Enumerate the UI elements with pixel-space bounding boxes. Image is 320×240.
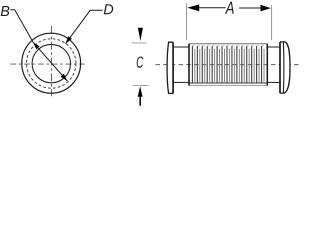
rib band bottom outline: [189, 85, 267, 87]
arrowhead B lower-right: [61, 74, 68, 81]
dimension C extension line top: [132, 42, 147, 44]
ribs second lines: [195, 49, 264, 83]
rib top caps: [192, 45, 264, 47]
dimension A line left segment: [199, 7, 226, 9]
right end cap: [280, 42, 290, 93]
right collar bottom line: [267, 81, 280, 83]
label B: [1, 6, 10, 16]
arrowhead A left: [187, 4, 199, 11]
rib root bottom line: [189, 82, 267, 84]
front view: vertical centerline: [51, 26, 53, 96]
dimension B diameter line: [33, 42, 67, 81]
dimension A extension line left: [186, 3, 188, 40]
flange (left head): [167, 42, 173, 93]
label A: [225, 2, 234, 14]
side view: axis centerline: [156, 64, 299, 66]
C bottom arrow stem: [139, 96, 141, 106]
right collar top line: [267, 46, 280, 48]
right cap inner line: [282, 42, 284, 93]
label C: [137, 56, 144, 67]
front view: horizontal centerline: [10, 63, 84, 65]
dimension A line right segment: [239, 7, 261, 9]
leader B: [10, 10, 33, 43]
C top arrow: [138, 28, 143, 41]
left collar top line: [173, 46, 189, 48]
rib band right edge: [266, 44, 268, 86]
flange face line: [172, 42, 174, 93]
leader D: [66, 10, 103, 43]
right cap face line: [279, 42, 281, 93]
arrowhead A right: [261, 5, 271, 12]
inner circle (bore): [32, 44, 70, 82]
left collar bottom line: [173, 81, 189, 83]
arrowhead B upper-left: [33, 42, 40, 49]
C bottom arrow: [138, 86, 143, 97]
dashed circle (hidden thread circle): [27, 39, 76, 88]
ribs major lines: [192, 46, 261, 83]
arrowhead D: [66, 36, 72, 43]
dimension A extension line right: [271, 5, 273, 40]
dimension C extension line bottom: [132, 84, 148, 86]
rib band left edge: [188, 44, 190, 86]
rib band top outline: [189, 43, 267, 45]
label D: [104, 4, 113, 14]
outer circle (flange OD): [22, 33, 81, 93]
